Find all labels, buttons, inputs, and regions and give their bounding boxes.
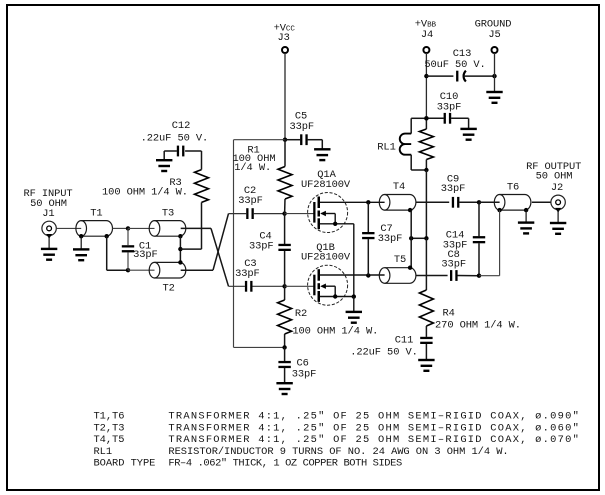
svg-text:270 OHM 1/4 W.: 270 OHM 1/4 W. [435, 319, 521, 331]
svg-text:50 OHM: 50 OHM [536, 170, 573, 182]
node C13-left junction [424, 74, 428, 78]
wire T6 shield drop [499, 210, 501, 276]
wire T1 shield to ground [80, 236, 82, 249]
wire C1 top lead [127, 228, 129, 245]
wire RL1 top stub [411, 117, 426, 119]
node R1-top junction [283, 138, 287, 142]
resistor RL1 element [419, 129, 433, 160]
wire RL1 to center-tap link [425, 170, 427, 238]
node link right junction [424, 236, 428, 240]
wire C14 top lead [478, 202, 480, 236]
wire J1 down [48, 236, 50, 249]
wire T4-T5 link vertical [410, 210, 412, 267]
capacitor C1 [122, 245, 134, 252]
svg-text:T6: T6 [507, 182, 519, 194]
ground below J5 [486, 91, 502, 104]
wire R4 top lead [425, 238, 427, 290]
ground below C10 [460, 128, 476, 141]
svg-text:.22uF 50 V.: .22uF 50 V. [141, 133, 209, 145]
wire RL1 left branch upper [410, 118, 412, 133]
wire J5 down [494, 53, 496, 92]
transformer T2 [149, 262, 186, 278]
wire node B to T2 [128, 269, 155, 271]
wire J4 down [425, 53, 427, 118]
wire R3 top lead [201, 151, 203, 170]
node link left junction [409, 236, 413, 240]
node C13-right junction [492, 74, 496, 78]
wire C2 left [229, 213, 247, 215]
wire feedback left vertical [233, 140, 235, 348]
transformer T6 [494, 195, 531, 211]
wire link row [411, 237, 426, 239]
svg-text:33pF: 33pF [292, 369, 317, 381]
wire R3 to C12 [185, 150, 201, 152]
ground below T1 [73, 248, 89, 261]
capacitor C8 [450, 270, 458, 281]
connector J5 terminal [492, 47, 498, 53]
wire C7 top lead [367, 202, 369, 232]
resistor R4 [419, 290, 433, 326]
svg-text:T5: T5 [394, 254, 406, 266]
svg-text:J5: J5 [488, 29, 500, 41]
svg-text:J2: J2 [551, 182, 563, 194]
node C14-top junction [477, 200, 481, 204]
wire to T6 [479, 201, 500, 203]
wire J1 to T1 [56, 227, 81, 229]
wire R1 bottom lead [284, 199, 286, 214]
ground below J1 [41, 248, 57, 261]
transformer T4 [379, 195, 416, 211]
wire T6 right shield to ground [525, 210, 527, 223]
wire C3 left [229, 285, 245, 287]
wire T2 output [181, 269, 213, 271]
wire C10 left [426, 117, 443, 119]
svg-text:RL1: RL1 [94, 446, 113, 458]
svg-text:UF28100V: UF28100V [301, 179, 351, 191]
svg-text:J1: J1 [42, 208, 54, 220]
svg-text:33pF: 33pF [441, 183, 466, 195]
node drain-A junction [366, 200, 370, 204]
svg-text:TRANSFORMER 4:1, .25" OF 25 OH: TRANSFORMER 4:1, .25" OF 25 OHM SEMI–RIG… [168, 422, 580, 434]
wire R1 node to C5 [285, 139, 300, 141]
ground below sources [346, 311, 362, 324]
svg-text:T4: T4 [393, 181, 405, 193]
svg-text:50uF 50 V.: 50uF 50 V. [424, 59, 485, 71]
node B junction C1 bottom [126, 268, 130, 272]
svg-text:33pF: 33pF [437, 101, 462, 113]
svg-text:TRANSFORMER 4:1, .25" OF 25 OH: TRANSFORMER 4:1, .25" OF 25 OHM SEMI–RIG… [168, 411, 580, 423]
wire R2 top lead [284, 286, 286, 300]
resistor R1 [278, 167, 292, 200]
svg-text:RL1: RL1 [377, 141, 395, 153]
svg-text:C11: C11 [395, 334, 413, 346]
wire C6 top lead [284, 347, 286, 361]
wire J3 to R1 node [284, 53, 286, 140]
wire C4 top lead [284, 214, 286, 244]
capacitor C9 [452, 197, 460, 208]
capacitor C3 [245, 281, 253, 292]
wire C4 bottom lead [284, 251, 286, 286]
transformer T1 [76, 221, 113, 237]
svg-text:33pF: 33pF [441, 258, 466, 270]
svg-text:T1: T1 [90, 208, 102, 220]
svg-text:.22uF 50 V.: .22uF 50 V. [350, 346, 418, 358]
wire gate-A lead [285, 213, 315, 215]
svg-text:33pF: 33pF [249, 240, 274, 252]
wire source to ground [353, 297, 355, 312]
transformer T5 [379, 268, 416, 284]
wire tap to R3 [180, 248, 201, 250]
wire RL1 resistor bottom lead [425, 160, 427, 171]
ground below C5 [314, 148, 330, 161]
wire T3 output [181, 227, 211, 229]
node source join junction [352, 294, 356, 298]
wire C2 right [254, 213, 285, 215]
transistor Q1B [308, 265, 385, 305]
svg-text:UF28100V: UF28100V [301, 251, 351, 263]
wire T5 output [416, 275, 448, 277]
svg-text:33pF: 33pF [290, 121, 315, 133]
node T1 bottom-left junction [79, 234, 83, 238]
wire C8 right [458, 275, 480, 277]
svg-text:T2: T2 [163, 282, 175, 294]
svg-text:J3: J3 [278, 32, 290, 44]
capacitor C13 polarized [456, 71, 466, 82]
svg-text:R4: R4 [443, 308, 455, 320]
inductor RL1 winding [400, 134, 412, 155]
transformer T3 [149, 221, 186, 237]
svg-text:100 OHM 1/4 W.: 100 OHM 1/4 W. [292, 325, 378, 337]
capacitor C10 [444, 113, 452, 124]
ground below T6 [518, 221, 534, 234]
wire C13 left [426, 75, 453, 77]
wire T4 output [416, 201, 449, 203]
svg-text:TRANSFORMER 4:1, .25" OF 25 OH: TRANSFORMER 4:1, .25" OF 25 OHM SEMI–RIG… [168, 434, 580, 446]
svg-text:33pF: 33pF [238, 195, 263, 207]
capacitor C12 [177, 146, 185, 157]
capacitor C6 [278, 361, 290, 368]
node T6 bottom-left junction [497, 208, 501, 212]
node T1 bottom-right junction [105, 234, 109, 238]
wire C14 bottom lead [478, 243, 480, 276]
wire feedback bottom horizontal [234, 346, 285, 348]
connector J2 coax jack [551, 195, 565, 213]
wire gate-B lead [285, 285, 315, 287]
wire R1 top lead [284, 140, 286, 167]
capacitor C2 [246, 208, 254, 219]
wire node A to T3 [128, 227, 155, 229]
wire C11 to ground [425, 344, 427, 360]
capacitor C7 [362, 232, 374, 239]
node R3 tap junction [178, 247, 182, 251]
node RL1 bottom junction [424, 168, 428, 172]
svg-text:C12: C12 [172, 120, 190, 132]
wire RL1 left branch lower [410, 155, 412, 170]
wire C6 to ground [284, 368, 286, 383]
wire C3 right [252, 285, 284, 287]
svg-text:T2,T3: T2,T3 [94, 422, 125, 434]
node RL1 top junction [424, 116, 428, 120]
svg-text:33pF: 33pF [133, 249, 158, 261]
wire R4 bottom lead [425, 326, 427, 337]
transistor Q1A [308, 193, 385, 233]
svg-text:33pF: 33pF [378, 233, 403, 245]
node T5 top-right junction [408, 266, 412, 270]
wire T1 bottom-right down [106, 236, 108, 270]
resistor R2 [278, 300, 292, 334]
resistor R3 [195, 170, 209, 203]
wire C9 right [459, 201, 479, 203]
svg-text:RESISTOR/INDUCTOR 9 TURNS OF N: RESISTOR/INDUCTOR 9 TURNS OF NO. 24 AWG … [168, 446, 508, 458]
wire C10 to ground [451, 117, 469, 119]
wire feedback top horizontal [234, 139, 286, 141]
svg-text:33pF: 33pF [235, 268, 260, 280]
svg-text:R2: R2 [295, 308, 307, 320]
ground below J2 [550, 222, 566, 235]
node drain-B junction [366, 273, 370, 277]
wire J2 down [557, 210, 559, 224]
connector J1 coax jack [42, 221, 56, 239]
node T2 top-right junction [178, 260, 182, 264]
node A junction C1 top [126, 226, 130, 230]
svg-text:J4: J4 [421, 29, 433, 41]
wire Q1A source down [353, 224, 355, 297]
wire C12 to ground [164, 150, 177, 152]
svg-text:BOARD TYPE: BOARD TYPE [94, 457, 156, 469]
node T6 bottom-right junction [524, 208, 528, 212]
wire diagonal T2-to-upper [213, 214, 229, 271]
capacitor C5 [300, 134, 308, 145]
svg-text:100 OHM 1/4 W.: 100 OHM 1/4 W. [102, 187, 188, 199]
svg-text:T3: T3 [162, 208, 174, 220]
svg-text:T4,T5: T4,T5 [94, 434, 125, 446]
ground below C6 [276, 382, 292, 395]
node gate-A junction [282, 211, 286, 215]
node C10 junction [424, 116, 428, 120]
ground below C12 [156, 159, 172, 172]
wire C7 bottom lead [367, 239, 369, 275]
svg-text:T1,T6: T1,T6 [94, 411, 125, 423]
wire T1 to node A [113, 227, 129, 229]
wire C5 to ground [308, 139, 323, 141]
svg-text:1/4 W.: 1/4 W. [234, 162, 271, 174]
ground below C11 [418, 359, 434, 372]
node T4 bottom-right junction [408, 208, 412, 212]
wire diagonal T3-to-lower [211, 228, 229, 286]
wire R3 bottom lead [201, 202, 203, 249]
node gate-B junction [282, 284, 286, 288]
node R2-bottom junction [282, 345, 286, 349]
connector J4 terminal [423, 47, 429, 53]
connector J3 terminal [282, 47, 288, 53]
capacitor C4 [278, 244, 290, 251]
wire C8 node to T6 drop [479, 275, 500, 277]
node T3 bottom-right junction [178, 234, 182, 238]
capacitor C11 [420, 337, 432, 344]
capacitor C14 [473, 236, 485, 243]
wire C13 right [464, 75, 495, 77]
wire C1 bottom lead [127, 252, 129, 270]
wire R2 bottom lead [284, 334, 286, 347]
wire T6 to J2 [532, 201, 551, 203]
wire T3-T2 right vertical [179, 236, 181, 262]
svg-text:FR–4 .062" THICK, 1 OZ COPPER: FR–4 .062" THICK, 1 OZ COPPER BOTH SIDES [168, 457, 402, 469]
wire RL1 resistor top lead [425, 118, 427, 129]
node C8-C14 junction [477, 274, 481, 278]
